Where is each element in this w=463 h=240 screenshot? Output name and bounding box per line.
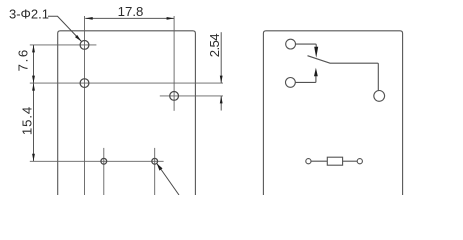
svg-text:17.8: 17.8 [118,4,144,19]
svg-text:7.6: 7.6 [16,48,31,71]
svg-text:15.4: 15.4 [20,106,35,135]
svg-text:2.54: 2.54 [207,34,222,58]
svg-text:3-Φ2.1: 3-Φ2.1 [9,6,49,21]
